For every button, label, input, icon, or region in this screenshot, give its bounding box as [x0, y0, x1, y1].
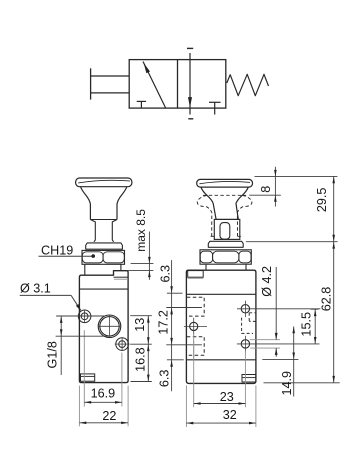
svg-text:Ø 3.1: Ø 3.1 — [20, 281, 51, 295]
svg-text:62.8: 62.8 — [319, 287, 333, 312]
svg-text:16.8: 16.8 — [133, 347, 147, 372]
svg-text:14.9: 14.9 — [280, 371, 294, 396]
svg-text:CH19: CH19 — [41, 244, 73, 258]
svg-text:6.3: 6.3 — [158, 265, 172, 283]
svg-text:32: 32 — [223, 408, 237, 422]
svg-text:Ø 4.2: Ø 4.2 — [260, 266, 274, 297]
svg-text:16.9: 16.9 — [91, 387, 116, 401]
svg-text:29.5: 29.5 — [315, 188, 329, 213]
svg-text:23: 23 — [220, 390, 234, 404]
svg-text:8: 8 — [259, 186, 273, 193]
svg-text:max 8.5: max 8.5 — [134, 209, 148, 252]
svg-text:6.3: 6.3 — [157, 370, 171, 388]
svg-text:G1/8: G1/8 — [46, 341, 60, 368]
svg-text:22: 22 — [102, 409, 116, 423]
svg-text:13: 13 — [133, 318, 147, 332]
svg-text:15.5: 15.5 — [300, 312, 314, 337]
svg-text:17.2: 17.2 — [156, 310, 170, 335]
